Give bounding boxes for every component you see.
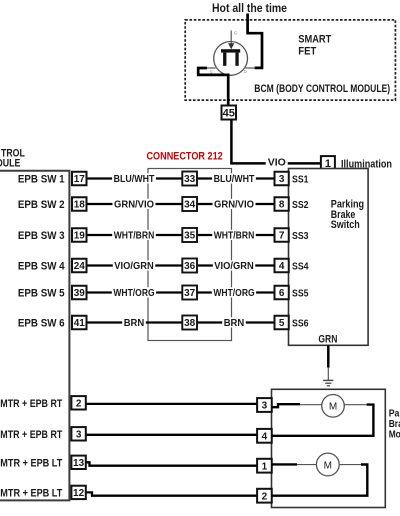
module pin box 17 [72, 172, 87, 186]
svg-text:Switch: Switch [331, 219, 360, 231]
svg-text:G: G [234, 31, 238, 36]
wire color label GRN/VIO (right) [213, 199, 256, 211]
svg-text:EPB SW 5: EPB SW 5 [18, 288, 65, 300]
switch pin box 6 [275, 286, 289, 300]
svg-text:BRN: BRN [224, 318, 245, 329]
connector pin 1 [321, 156, 335, 170]
svg-text:EPB SW 6: EPB SW 6 [18, 318, 65, 330]
label: SMART FET [298, 33, 331, 57]
label: VIO wire color [266, 157, 288, 169]
wire: pin 3 to motor M1 [272, 404, 322, 407]
svg-text:VIO/GRN: VIO/GRN [214, 261, 254, 272]
wire color label WHT/BRN (left) [112, 230, 156, 242]
wire: connector pin 33 to switch pin 3 [197, 177, 275, 179]
svg-text:WHT/BRN: WHT/BRN [114, 231, 155, 242]
module pin box 39 [72, 286, 87, 300]
wire: module pin 18 to connector pin 34 [87, 203, 183, 205]
module pin box 19 [72, 228, 87, 242]
svg-text:38: 38 [184, 318, 196, 329]
wire color label WHT/ORG (left) [112, 287, 156, 299]
svg-text:2: 2 [262, 491, 268, 502]
svg-text:DULE: DULE [0, 158, 20, 170]
connector 212 pin box 35 [182, 228, 197, 242]
parking brake motors box [272, 389, 386, 507]
label: Parking Brake Switch [331, 198, 364, 231]
svg-text:3: 3 [262, 401, 268, 412]
svg-text:1: 1 [262, 461, 268, 472]
wire color label BRN (right) [222, 317, 246, 329]
switch pin box 3 [275, 172, 289, 186]
svg-text:35: 35 [184, 231, 196, 242]
svg-text:GRN/VIO: GRN/VIO [214, 200, 254, 211]
svg-text:CONNECTOR 212: CONNECTOR 212 [146, 151, 222, 163]
switch pin box 8 [275, 197, 289, 211]
module pin box 13 [71, 456, 85, 469]
wire: module pin 3 to motor pin 4 [86, 434, 258, 436]
svg-text:BLU/WHT: BLU/WHT [214, 174, 255, 185]
BCM (Body Control Module) dashed box [185, 20, 395, 100]
wire: pin 1 to motor M2 [272, 463, 317, 466]
svg-text:FET: FET [298, 46, 316, 58]
motor pin box 1 [257, 459, 272, 473]
motor M1 [322, 395, 345, 418]
svg-text:MTR + EPB LT: MTR + EPB LT [0, 457, 62, 469]
wire: connector pin 34 to switch pin 8 [197, 203, 275, 205]
wire: pin 45 to illumination [231, 120, 321, 164]
connector 212 pin box 37 [182, 286, 197, 300]
svg-text:WHT/ORG: WHT/ORG [213, 288, 254, 299]
wire: module pin 19 to connector pin 35 [87, 234, 183, 236]
ground [323, 380, 333, 385]
svg-text:SS2: SS2 [292, 199, 309, 211]
connector 212 outline [148, 169, 232, 341]
motor M2 [316, 453, 339, 476]
wire: motor M2 to pin 2 [272, 465, 368, 496]
svg-text:SS5: SS5 [292, 287, 309, 299]
svg-text:45: 45 [223, 108, 235, 120]
connector 212 pin box 33 [182, 172, 197, 186]
EPB control module box [0, 171, 69, 501]
svg-text:EPB SW 2: EPB SW 2 [18, 199, 65, 211]
svg-text:33: 33 [184, 174, 196, 185]
svg-text:36: 36 [184, 261, 196, 272]
svg-text:SS1: SS1 [292, 173, 309, 185]
connector 212 pin box 36 [182, 259, 197, 273]
svg-text:12: 12 [73, 488, 85, 499]
connector 212 pin box 34 [182, 197, 197, 211]
transistor Q1 smart FET [207, 31, 255, 76]
svg-text:17: 17 [74, 174, 86, 185]
svg-text:Motors: Motors [389, 429, 400, 441]
wire: module pin 17 to connector pin 33 [87, 177, 183, 179]
module pin box 24 [72, 259, 87, 273]
svg-text:Hot all the time: Hot all the time [212, 1, 287, 15]
switch pin box 5 [275, 316, 289, 330]
wire: connector pin 36 to switch pin 4 [197, 264, 275, 266]
svg-text:MTR + EPB LT: MTR + EPB LT [0, 487, 62, 499]
connector pin 45 [222, 106, 237, 120]
wire color label WHT/ORG (right) [212, 287, 256, 299]
parking brake switch box [289, 169, 369, 346]
svg-text:VIO/GRN: VIO/GRN [114, 261, 154, 272]
wire color label GRN/VIO (left) [113, 199, 156, 211]
wire: connector pin 38 to switch pin 5 [197, 321, 275, 323]
motor pin box 2 [257, 489, 272, 503]
wire: module pin 41 to connector pin 38 [87, 321, 183, 323]
wire color label WHT/BRN (right) [212, 230, 256, 242]
svg-text:EPB SW 1: EPB SW 1 [18, 174, 65, 186]
svg-text:GRN: GRN [318, 333, 337, 345]
wire: hot feed to FET drain [248, 14, 262, 68]
svg-text:MTR + EPB RT: MTR + EPB RT [0, 398, 62, 410]
wire: module pin 12 to motor pin 2 [86, 492, 258, 495]
svg-text:24: 24 [74, 261, 86, 272]
module pin box 18 [72, 197, 87, 211]
svg-text:SS4: SS4 [292, 260, 309, 272]
label: (CON)TROL (MO)DULE [0, 147, 25, 169]
switch pin box 7 [275, 228, 289, 242]
wire: module pin 13 to motor pin 1 [86, 462, 258, 465]
svg-text:6: 6 [279, 288, 285, 299]
svg-text:GRN/VIO: GRN/VIO [114, 200, 154, 211]
wire: switch to ground [327, 345, 330, 380]
svg-text:M: M [324, 460, 332, 471]
connector 212 pin box 38 [182, 316, 197, 330]
svg-text:41: 41 [74, 318, 86, 329]
svg-text:EPB SW 4: EPB SW 4 [18, 261, 65, 273]
wire color label VIO/GRN (left) [113, 260, 156, 272]
svg-text:7: 7 [279, 231, 285, 242]
svg-text:19: 19 [74, 231, 86, 242]
svg-text:EPB SW 3: EPB SW 3 [18, 230, 65, 242]
svg-text:VIO: VIO [268, 158, 286, 169]
svg-text:8: 8 [279, 200, 285, 211]
wire: module pin 24 to connector pin 36 [87, 264, 183, 266]
wire color label BRN (left) [122, 317, 146, 329]
wire color label BLU/WHT (right) [212, 173, 256, 185]
module pin box 12 [71, 486, 85, 499]
module pin box 41 [72, 316, 87, 330]
svg-text:SMART: SMART [298, 33, 331, 45]
svg-text:3: 3 [76, 430, 82, 441]
wire: module pin 2 to motor pin 3 [86, 403, 258, 405]
svg-text:BRN: BRN [124, 318, 145, 329]
svg-text:34: 34 [184, 200, 196, 211]
svg-text:M: M [329, 402, 337, 413]
wire: connector pin 37 to switch pin 6 [197, 291, 275, 293]
wire color label VIO/GRN (right) [213, 260, 256, 272]
wire: module pin 39 to connector pin 37 [87, 291, 183, 293]
wire: FET source to pin 45 [198, 68, 228, 106]
wire: connector pin 35 to switch pin 7 [197, 234, 275, 236]
svg-text:3: 3 [279, 174, 285, 185]
wire: motor M1 to pin 4 [272, 405, 374, 436]
svg-text:WHT/ORG: WHT/ORG [113, 288, 154, 299]
module pin box 3 [71, 427, 85, 440]
svg-text:4: 4 [262, 432, 268, 443]
svg-text:18: 18 [74, 200, 86, 211]
svg-text:39: 39 [74, 288, 86, 299]
svg-text:SS6: SS6 [292, 317, 309, 329]
svg-text:5: 5 [279, 318, 285, 329]
svg-text:4: 4 [279, 261, 285, 272]
module pin box 2 [71, 396, 85, 409]
svg-text:MTR + EPB RT: MTR + EPB RT [0, 429, 62, 441]
svg-text:37: 37 [184, 288, 196, 299]
svg-text:13: 13 [73, 458, 85, 469]
label: Parking Brake Motors (clipped) [389, 408, 400, 441]
svg-text:BLU/WHT: BLU/WHT [114, 174, 155, 185]
svg-text:BCM (BODY CONTROL MODULE): BCM (BODY CONTROL MODULE) [254, 83, 390, 95]
motor pin box 3 [257, 398, 272, 412]
svg-text:WHT/BRN: WHT/BRN [214, 231, 255, 242]
switch pin box 4 [275, 259, 289, 273]
svg-text:2: 2 [76, 399, 82, 410]
svg-text:SS3: SS3 [292, 230, 309, 242]
motor pin box 4 [257, 429, 272, 443]
wire color label BLU/WHT (left) [112, 173, 156, 185]
